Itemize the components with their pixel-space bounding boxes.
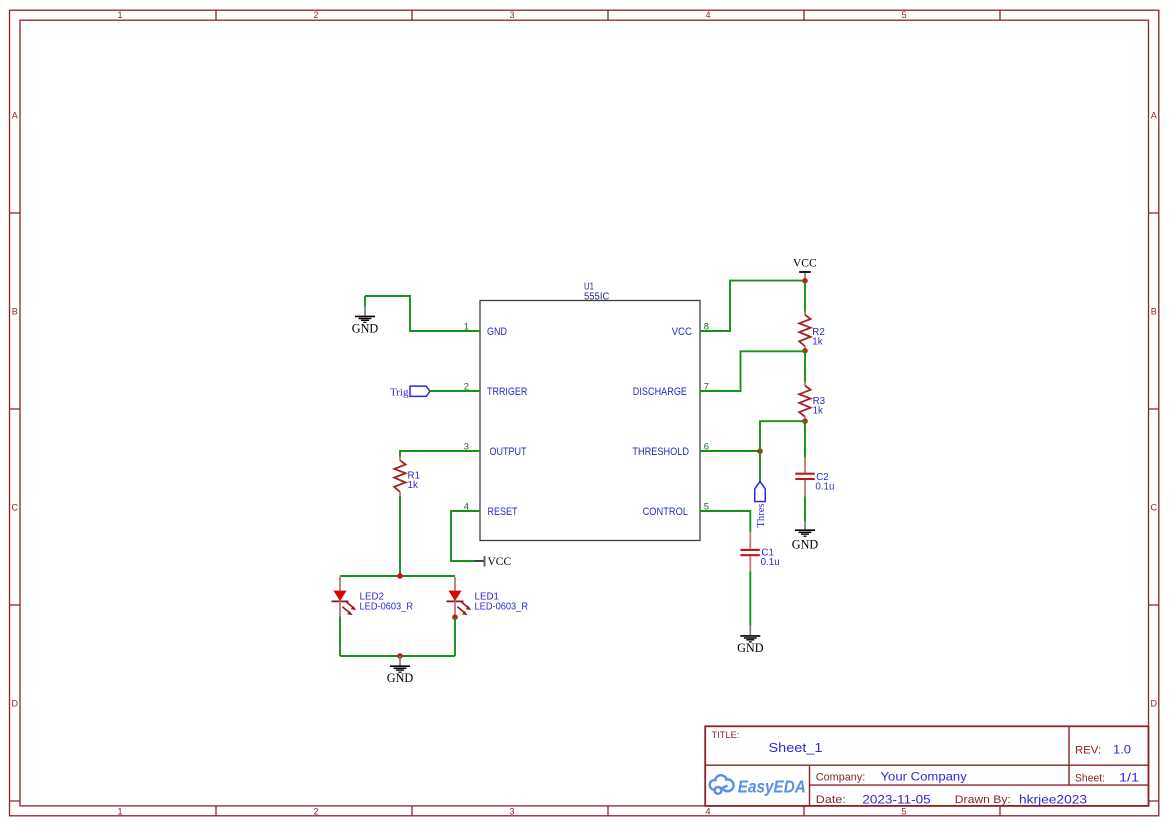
title block revision 1.0: [1113, 742, 1131, 756]
op-amp U1 555IC body: [480, 301, 700, 541]
pin name CONTROL pin5: [643, 506, 688, 518]
junction rail bottom: [397, 653, 403, 659]
resistor R1: [394, 457, 405, 497]
svg-text:1k: 1k: [813, 406, 823, 417]
label R3: [813, 396, 826, 407]
svg-text:3: 3: [509, 10, 514, 20]
value LED-0603_R of LED1: [475, 601, 529, 612]
pin number 8: [704, 321, 709, 332]
capacitor C1: [740, 532, 759, 572]
svg-text:D: D: [1150, 698, 1157, 708]
svg-text:OUTPUT: OUTPUT: [490, 446, 527, 458]
svg-text:THRESHOLD: THRESHOLD: [632, 446, 689, 458]
svg-text:5: 5: [704, 501, 709, 512]
pin name VCC pin8: [672, 326, 693, 338]
pin number 3: [464, 441, 469, 452]
value 0.1u of C1: [761, 557, 780, 568]
svg-text:GND: GND: [737, 641, 764, 655]
title block date 2023-11-05: [862, 793, 931, 807]
title block company name Your Company: [881, 769, 968, 783]
wire R3 node to C2 top: [804, 421, 806, 457]
svg-text:A: A: [12, 110, 18, 120]
wire LED top rail: [340, 575, 455, 577]
svg-text:Sheet_1: Sheet_1: [769, 740, 823, 755]
svg-text:2: 2: [464, 381, 469, 392]
wire pin4 to VCC flag: [451, 511, 480, 561]
ground GND (below C1): [737, 626, 764, 656]
junction LED1 cathode: [452, 614, 458, 620]
net flag Trig: [390, 386, 430, 398]
pin number 5: [704, 501, 709, 512]
title block sheet name Sheet_1: [769, 740, 823, 755]
title block Company: label: [816, 771, 866, 783]
wire Trig flag to pin2: [430, 390, 480, 392]
svg-text:1k: 1k: [812, 336, 822, 347]
wire C1 bottom to GND: [749, 572, 751, 626]
svg-text:VCC: VCC: [488, 556, 512, 568]
svg-text:hkrjee2023: hkrjee2023: [1019, 793, 1087, 807]
label C1: [761, 548, 774, 559]
net flag Thres: [755, 482, 767, 528]
label C2: [816, 472, 829, 483]
ground GND (below LEDs): [387, 656, 414, 685]
svg-text:C: C: [11, 502, 18, 512]
svg-text:TITLE:: TITLE:: [712, 730, 740, 740]
svg-text:GND: GND: [352, 321, 379, 335]
svg-text:1: 1: [464, 321, 469, 332]
junction rail top: [397, 573, 403, 579]
svg-text:D: D: [11, 698, 18, 708]
svg-text:B: B: [12, 306, 18, 316]
value 1k of R1: [408, 480, 418, 491]
svg-text:REV:: REV:: [1075, 744, 1101, 756]
svg-text:1k: 1k: [408, 480, 418, 491]
value 555IC: [584, 291, 609, 302]
refdes U1: [584, 282, 594, 293]
svg-text:0.1u: 0.1u: [761, 557, 780, 568]
value 0.1u of C2: [815, 482, 834, 493]
title block sheet count 1/1: [1119, 770, 1139, 784]
pin number 2: [464, 381, 469, 392]
svg-text:RESET: RESET: [488, 506, 518, 518]
pin number 6: [704, 441, 709, 452]
svg-text:LED-0603_R: LED-0603_R: [475, 601, 529, 612]
svg-text:1: 1: [117, 806, 122, 816]
pin name RESET pin4: [488, 506, 518, 518]
resistor R3: [799, 382, 810, 421]
title block frame: [705, 726, 1148, 806]
title block Sheet: label: [1075, 772, 1105, 784]
value 1k of R3: [813, 406, 823, 417]
LED LED2: [332, 577, 357, 617]
svg-text:CONTROL: CONTROL: [643, 506, 688, 518]
svg-text:LED-0603_R: LED-0603_R: [360, 601, 414, 612]
label LED2: [360, 592, 385, 603]
pin name DISCHARGE pin7: [633, 386, 687, 398]
svg-text:4: 4: [705, 10, 710, 20]
wire VCC to R2 top: [804, 281, 806, 312]
junction VCC node: [802, 278, 808, 284]
title block REV: label: [1075, 744, 1101, 756]
svg-text:A: A: [1151, 110, 1157, 120]
svg-text:6: 6: [704, 441, 709, 452]
wire pin3 to R1 top: [400, 451, 480, 457]
wire LED1 cathode down: [454, 617, 456, 656]
wire threshold node up to R3 node: [760, 421, 805, 451]
svg-text:DISCHARGE: DISCHARGE: [633, 386, 687, 398]
svg-text:2: 2: [313, 806, 318, 816]
svg-text:4: 4: [464, 501, 469, 512]
label R2: [812, 327, 825, 338]
wire pin8 to VCC rail: [700, 281, 805, 331]
label LED1: [475, 592, 500, 603]
svg-text:7: 7: [704, 381, 709, 392]
wire R1 bottom to LED rail: [399, 496, 401, 576]
svg-text:B: B: [1151, 306, 1157, 316]
svg-text:1/1: 1/1: [1119, 770, 1139, 784]
power flag VCC (top right): [793, 258, 817, 281]
capacitor C2: [795, 458, 814, 497]
value LED-0603_R of LED2: [360, 601, 414, 612]
wire GND symbol to pin1: [365, 296, 480, 331]
label R1: [408, 471, 421, 482]
wire LED bottom rail: [340, 655, 455, 657]
svg-text:5: 5: [901, 806, 906, 816]
title block TITLE: label: [712, 730, 740, 740]
wire pin5 to C1 top: [700, 511, 750, 532]
wire C2 bottom to GND: [804, 496, 806, 521]
pin number 1: [464, 321, 469, 332]
wire pin7 to R2/R3 node: [700, 351, 805, 391]
svg-text:C: C: [1150, 502, 1157, 512]
svg-text:3: 3: [509, 806, 514, 816]
junction R2 bottom node: [802, 348, 808, 354]
svg-text:8: 8: [704, 321, 709, 332]
resistor R2: [799, 312, 810, 351]
pin name GND pin1: [487, 326, 507, 338]
svg-text:GND: GND: [487, 326, 507, 338]
svg-text:Drawn By:: Drawn By:: [955, 794, 1011, 806]
svg-text:GND: GND: [792, 538, 819, 552]
junction R3 bottom node: [802, 418, 808, 424]
svg-text:2023-11-05: 2023-11-05: [862, 793, 931, 807]
wire LED2 cathode down: [339, 617, 341, 657]
svg-text:VCC: VCC: [793, 258, 817, 270]
pin name OUTPUT pin3: [490, 446, 527, 458]
svg-text:1: 1: [117, 10, 122, 20]
svg-text:Your Company: Your Company: [881, 769, 968, 783]
svg-text:2: 2: [313, 10, 318, 20]
title block Drawn By: label: [955, 794, 1011, 806]
logo EasyEDA text: [738, 776, 806, 796]
pin number 7: [704, 381, 709, 392]
svg-text:5: 5: [901, 10, 906, 20]
svg-text:Date:: Date:: [816, 794, 846, 806]
svg-text:Sheet:: Sheet:: [1075, 772, 1105, 784]
ground GND (top left): [352, 296, 379, 335]
pin number 4: [464, 501, 469, 512]
title block Date: label: [816, 794, 846, 806]
svg-text:TRRIGER: TRRIGER: [487, 386, 528, 398]
svg-text:VCC: VCC: [672, 326, 693, 338]
wire pin6 to threshold node: [700, 450, 760, 452]
pin name THRESHOLD pin6: [632, 446, 689, 458]
svg-text:GND: GND: [387, 671, 414, 685]
wire threshold node to Thres flag: [759, 451, 761, 482]
svg-text:555IC: 555IC: [584, 291, 609, 302]
svg-text:0.1u: 0.1u: [815, 482, 834, 493]
power flag VCC (at pin4): [475, 556, 511, 568]
junction threshold node: [757, 448, 763, 454]
svg-text:Thres: Thres: [756, 503, 767, 527]
value 1k of R2: [812, 336, 822, 347]
title block author hkrjee2023: [1019, 793, 1087, 807]
ground GND (below C2): [792, 521, 819, 552]
svg-text:4: 4: [705, 806, 710, 816]
svg-text:1.0: 1.0: [1113, 742, 1131, 756]
wire R2 node to R3 top: [804, 351, 806, 382]
logo EasyEDA cloud icon: [710, 775, 734, 794]
pin name TRRIGER pin2: [487, 386, 528, 398]
svg-text:3: 3: [464, 441, 469, 452]
LED LED1: [447, 577, 472, 617]
svg-text:EasyEDA: EasyEDA: [738, 776, 806, 796]
svg-text:Company:: Company:: [816, 771, 866, 783]
svg-text:Trig: Trig: [390, 386, 409, 398]
